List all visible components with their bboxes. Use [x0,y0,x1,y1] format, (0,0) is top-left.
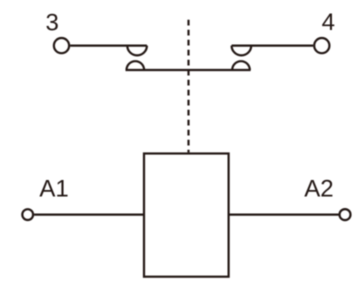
svg-text:3: 3 [46,10,59,37]
right fixed contact [232,46,252,56]
terminal A1 [22,209,33,220]
movable contact bridge bar [126,69,251,71]
left fixed contact [127,46,147,56]
right bridge contact [232,61,250,70]
wire terminal 3 to left fixed contact [70,44,147,46]
wire terminal A1 to coil [34,214,144,216]
terminal 3 [54,38,69,53]
svg-text:4: 4 [322,9,335,36]
svg-text:A2: A2 [304,176,333,203]
svg-text:A1: A1 [39,175,68,202]
coil K1 [144,154,229,277]
terminal 4 [314,38,329,53]
wire coil to terminal A2 [229,214,339,216]
terminal A2 [340,209,351,220]
wire right fixed contact to terminal 4 [232,44,314,46]
mechanical linkage (dashed) [187,20,189,153]
left bridge contact [127,61,145,70]
